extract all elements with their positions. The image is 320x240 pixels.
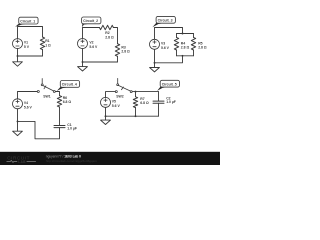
resistor R5 <box>191 37 195 50</box>
resistor R7 <box>133 97 137 108</box>
capacitor C2 <box>153 101 164 103</box>
wire circuit3 bottom feed <box>155 56 183 63</box>
wire SW2 to C2 top rail <box>132 91 158 93</box>
junction circuit1 ground node <box>17 55 19 57</box>
ground circuit4 <box>13 121 23 135</box>
svg-text:5.6 V: 5.6 V <box>89 45 98 49</box>
ground circuit1 <box>13 56 23 66</box>
wire V4 bottom to node <box>17 109 19 122</box>
value label R5 <box>198 41 207 49</box>
svg-text:5 V: 5 V <box>24 45 30 49</box>
junction R7 top node <box>135 91 137 93</box>
svg-text:Circuit_3: Circuit_3 <box>158 19 173 23</box>
footer CircuitLab logo <box>7 155 36 163</box>
wire circuit2 bottom rail <box>83 61 118 63</box>
ground circuit5 <box>101 116 111 124</box>
capacitor C1 <box>54 126 65 128</box>
voltage source V3 <box>150 39 160 49</box>
junction circuit5 ground node <box>105 115 107 117</box>
value label V2 <box>89 41 98 49</box>
svg-text:SW1: SW1 <box>43 95 50 99</box>
wire SW1 to R6 <box>55 92 59 96</box>
wire circuit1 bottom rail <box>18 55 43 57</box>
value label V4 <box>24 101 33 109</box>
wire R1 bottom stub <box>42 50 44 56</box>
value label R1 <box>45 39 51 47</box>
wire circuit1 top rail <box>18 27 43 39</box>
wire C1 bottom return <box>18 121 60 138</box>
value label R4 <box>181 41 190 49</box>
ground circuit2 <box>78 62 88 71</box>
junction circuit3 bottom node <box>182 55 184 57</box>
wire R6 to C1 <box>59 107 61 126</box>
footer bar <box>0 152 220 165</box>
svg-text:1.0 µF: 1.0 µF <box>67 127 77 131</box>
resistor R1 <box>40 37 44 50</box>
svg-text:2.8 Ω: 2.8 Ω <box>121 50 130 54</box>
svg-text:6.8 Ω: 6.8 Ω <box>63 100 72 104</box>
resistor R3 <box>115 44 119 57</box>
svg-text:5.6 V: 5.6 V <box>112 104 121 108</box>
voltage source V1 <box>13 39 23 49</box>
svg-text:LAB: LAB <box>18 160 26 164</box>
svg-text:6.8 Ω: 6.8 Ω <box>140 101 149 105</box>
voltage source V2 <box>78 39 88 49</box>
node label flag Circuit_2 <box>82 17 101 27</box>
svg-text:http://circuitlab.com/c/2gg26x: http://circuitlab.com/c/2gg26x46gqsm <box>46 159 97 163</box>
junction R7 bottom node <box>135 115 137 117</box>
svg-text:Circuit_2: Circuit_2 <box>83 19 98 23</box>
wire R7 top stub <box>135 92 137 97</box>
value label C1 <box>67 123 77 131</box>
wire circuit5 bottom rail <box>106 107 159 116</box>
junction circuit4 ground node <box>17 120 19 122</box>
wire circuit3 parallel bottom rail <box>177 55 194 57</box>
wire V2 bottom to node <box>82 49 84 62</box>
node label flag Circuit_4 <box>57 81 80 92</box>
wire V3 bottom to node <box>154 49 156 62</box>
wire C2 top stub <box>158 92 160 102</box>
svg-text:1 Ω: 1 Ω <box>45 43 51 47</box>
junction circuit2 ground node <box>82 61 84 63</box>
wire R4 top stub <box>176 34 178 38</box>
resistor R4 <box>174 37 178 50</box>
svg-text:Circuit_5: Circuit_5 <box>162 82 177 86</box>
wire V1 bottom to node <box>17 49 19 57</box>
value label R3 <box>121 45 130 53</box>
wire R2 to R3 <box>113 28 117 44</box>
node label flag Circuit_1 <box>15 17 38 27</box>
ground circuit3 <box>150 63 160 72</box>
svg-text:5.6 V: 5.6 V <box>161 46 170 50</box>
svg-text:Circuit_4: Circuit_4 <box>62 83 77 87</box>
resistor R2 <box>99 25 113 29</box>
junction circuit3 ground node <box>154 62 156 64</box>
switch SW1 <box>37 79 55 93</box>
voltage source V5 <box>101 97 111 107</box>
value label C2 <box>166 97 176 104</box>
node label flag Circuit_3 <box>152 16 175 27</box>
wire R4 bottom stub <box>176 50 178 56</box>
switch SW2 <box>115 78 132 92</box>
wire R7 bottom stub <box>135 108 137 117</box>
value label V1 <box>24 41 30 49</box>
svg-text:2.8 Ω: 2.8 Ω <box>198 46 207 50</box>
wire R5 top stub <box>193 34 195 38</box>
voltage source V4 <box>13 99 23 109</box>
wire R3 bottom stub <box>117 56 119 62</box>
svg-text:5.6 V: 5.6 V <box>24 105 33 109</box>
wire circuit5 top rail <box>106 92 116 98</box>
resistor R6 <box>57 96 61 107</box>
wire circuit4 top rail <box>18 92 38 99</box>
svg-text:2.8 Ω: 2.8 Ω <box>181 46 190 50</box>
junction circuit3 top node <box>182 33 184 35</box>
wire circuit3 parallel top rail <box>177 33 194 35</box>
wire R5 bottom stub <box>193 50 195 56</box>
wire circuit3 top feed <box>155 28 183 40</box>
value label R6 <box>63 96 72 104</box>
svg-text:2.8 Ω: 2.8 Ω <box>105 36 114 40</box>
svg-text:SW2: SW2 <box>116 94 123 98</box>
value label V3 <box>161 42 170 50</box>
svg-text:1.0 µF: 1.0 µF <box>166 100 176 104</box>
node label flag Circuit_5 <box>157 80 179 91</box>
value label R7 <box>140 97 149 105</box>
wire C2 bottom stub <box>158 103 160 116</box>
value label V5 <box>112 100 121 108</box>
value label R2 <box>105 31 114 39</box>
wire circuit2 top rail <box>83 28 100 39</box>
svg-text:Circuit_1: Circuit_1 <box>20 19 35 23</box>
